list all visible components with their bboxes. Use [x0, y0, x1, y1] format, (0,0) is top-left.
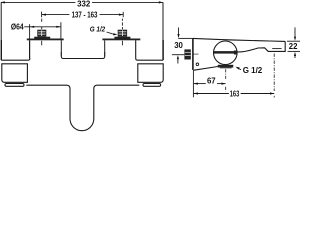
svg-text:30: 30	[174, 41, 183, 50]
svg-text:163: 163	[230, 90, 240, 99]
svg-text:G 1/2: G 1/2	[243, 66, 263, 75]
svg-text:22: 22	[289, 42, 298, 51]
svg-text:137 - 163: 137 - 163	[72, 11, 98, 20]
svg-text:332: 332	[77, 0, 91, 9]
svg-text:Ø64: Ø64	[11, 22, 24, 31]
svg-text:67: 67	[207, 76, 216, 85]
svg-text:G 1/2: G 1/2	[90, 25, 106, 34]
